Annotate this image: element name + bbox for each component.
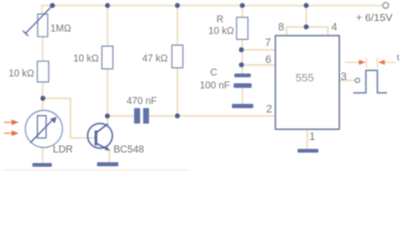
wire base node to transistor base	[43, 98, 95, 138]
wire pin 6	[242, 64, 275, 66]
wire pin 3 output	[339, 79, 355, 81]
resistor R3 47kΩ	[172, 45, 183, 68]
wire LDR bottom to ground	[42, 147, 44, 163]
junction dot base node	[40, 96, 45, 101]
svg-text:+ 6/15V: + 6/15V	[356, 12, 393, 24]
junction dot top rail / R	[240, 3, 245, 8]
wire pins 8 and 4 bus	[287, 27, 328, 36]
wire collector node to transistor	[106, 116, 108, 124]
potentiometer P1 1MΩ	[23, 6, 52, 37]
wire top rail to 10k middle	[107, 6, 109, 47]
svg-text:BC548: BC548	[114, 144, 145, 155]
svg-text:1MΩ: 1MΩ	[50, 23, 71, 34]
svg-text:LDR: LDR	[53, 144, 73, 155]
output square wave pulse	[354, 70, 387, 93]
pulse width arrow right	[377, 58, 394, 67]
resistor R4 R 10kΩ	[237, 17, 248, 39]
terminal +6/15V supply	[383, 3, 389, 9]
svg-text:555: 555	[296, 72, 314, 84]
wire capacitor C to ground	[241, 88, 243, 104]
capacitor C1 470nF plates	[134, 108, 149, 124]
ground below capacitor C	[232, 104, 253, 108]
junction dot 555 supply bus	[304, 24, 309, 29]
ground below LDR	[32, 163, 52, 167]
junction dot pin 7 node	[239, 47, 244, 52]
ground below transistor	[97, 162, 118, 166]
LDR photoresistor	[25, 110, 62, 147]
terminal pin 3 output	[355, 78, 359, 82]
svg-text:2: 2	[266, 104, 272, 116]
light arrow 2 into LDR	[5, 130, 19, 136]
svg-text:6: 6	[265, 54, 271, 66]
resistor R1 10kΩ (left)	[37, 61, 48, 82]
junction dot top rail / 555 supply	[304, 3, 309, 8]
wire 10k left bottom to LDR top	[42, 82, 44, 111]
light arrow 1 into LDR	[5, 120, 19, 126]
junction dot top of potentiometer	[50, 3, 55, 8]
svg-text:1: 1	[309, 131, 315, 143]
svg-text:470 nF: 470 nF	[127, 96, 157, 107]
wire 10k middle bottom to collector node	[107, 69, 109, 116]
svg-text:3: 3	[341, 71, 347, 83]
wire resistor R bottom through pin7/pin6 nodes to capacitor C	[241, 39, 243, 73]
junction dot pin 6 node	[239, 62, 244, 67]
transistor Q1 BC548	[88, 123, 113, 150]
wire 47k bottom to node	[176, 68, 178, 116]
svg-text:7: 7	[265, 37, 271, 49]
junction dot top rail / 47k	[175, 3, 180, 8]
wire pot bottom to 10k left	[42, 37, 44, 62]
capacitor C2 C 100nF plates	[234, 74, 252, 88]
op-amp/timer U1 555 body	[275, 36, 339, 130]
svg-text:t: t	[397, 52, 400, 63]
resistor R2 10kΩ (middle)	[102, 46, 113, 69]
svg-text:100 nF: 100 nF	[200, 81, 230, 92]
wire pin 1 to ground	[306, 129, 308, 149]
wire collector node to capacitor 470nF	[107, 115, 134, 117]
junction dot 47k / pin2 wire	[175, 113, 180, 118]
wire top rail to resistor R	[241, 6, 243, 18]
ground below 555 pin 1	[298, 149, 319, 153]
svg-text:C: C	[210, 68, 217, 79]
junction dot collector node	[105, 114, 110, 119]
wire capacitor 470nF to 555 pin 2	[149, 115, 275, 117]
wire top rail to 555 supply node	[305, 6, 307, 27]
svg-text:47 kΩ: 47 kΩ	[142, 54, 168, 65]
wire emitter to ground	[108, 150, 110, 162]
svg-text:R: R	[217, 14, 224, 25]
svg-text:10 kΩ: 10 kΩ	[9, 68, 35, 79]
junction dot top rail / 10k middle	[105, 3, 110, 8]
svg-text:10 kΩ: 10 kΩ	[73, 53, 99, 64]
wire top rail from potentiometer to +V terminal	[42, 6, 383, 15]
wire pin 7	[242, 49, 275, 51]
pulse width arrow left	[345, 58, 366, 67]
wire top rail to 47k	[176, 6, 178, 46]
scan artifact faint pink line	[2, 170, 190, 171]
svg-text:10 kΩ: 10 kΩ	[208, 26, 234, 37]
svg-text:8: 8	[278, 22, 284, 34]
svg-text:4: 4	[331, 22, 337, 34]
